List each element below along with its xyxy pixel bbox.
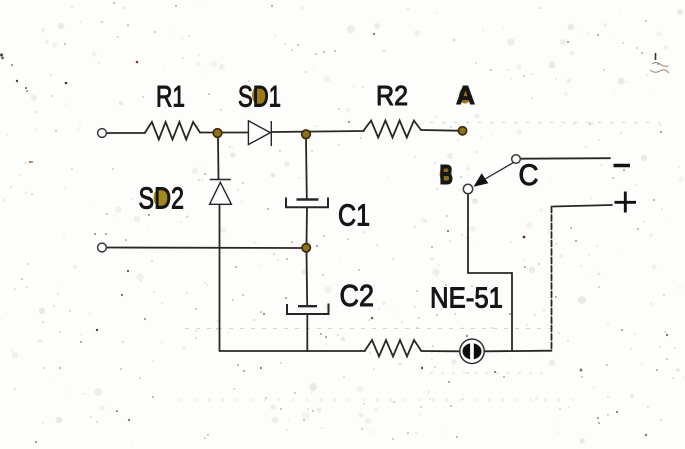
svg-text:C: C — [519, 159, 539, 192]
svg-text:C2: C2 — [340, 278, 375, 313]
svg-text:A: A — [456, 80, 475, 110]
svg-text:R2: R2 — [376, 80, 408, 111]
svg-text:B: B — [440, 159, 454, 190]
svg-text:R1: R1 — [156, 81, 185, 114]
svg-text:SD2: SD2 — [139, 181, 185, 216]
svg-text:C1: C1 — [338, 198, 370, 233]
svg-text:SD1: SD1 — [238, 81, 281, 114]
svg-text:NE-51: NE-51 — [430, 283, 503, 315]
